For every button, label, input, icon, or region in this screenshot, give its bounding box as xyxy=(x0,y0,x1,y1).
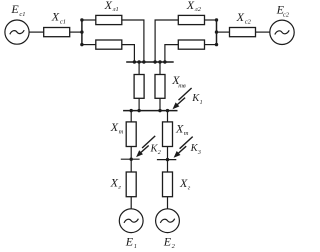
fault dot K2 xyxy=(130,158,133,161)
reactor Xt right xyxy=(163,122,173,147)
svg-text:X: X xyxy=(110,120,119,134)
svg-text:2: 2 xyxy=(158,150,161,156)
tilde of Ec2 xyxy=(275,30,289,34)
reactor Xtv right xyxy=(155,75,165,99)
tilde of G2 xyxy=(160,219,174,223)
wire Xtv left to lower bus xyxy=(138,98,140,110)
wire K2 node to Xg left xyxy=(130,159,132,172)
right bus xyxy=(216,19,218,45)
tilde of G1 xyxy=(124,219,138,223)
svg-text:с1: с1 xyxy=(19,11,25,18)
resistor Xc1 xyxy=(44,28,70,37)
svg-text:X: X xyxy=(236,10,245,24)
resistor Xl1 circuit 1 xyxy=(96,15,122,24)
resistor Xc2 xyxy=(230,28,256,37)
label Xt left xyxy=(110,120,124,136)
source Ec2 circle xyxy=(270,20,294,44)
fault arrow K1 xyxy=(173,88,192,109)
wire Ec1 to Xc1 xyxy=(29,31,44,33)
fault arrow K3 xyxy=(174,137,193,158)
fault node line K3 xyxy=(157,159,176,161)
svg-text:1: 1 xyxy=(200,100,203,106)
wire Xt right to fault K3 node xyxy=(167,147,169,160)
wire Xg right to generator 2 xyxy=(167,197,169,209)
svg-text:с1: с1 xyxy=(60,18,66,25)
source Ec1 circle xyxy=(5,20,29,44)
svg-text:тв: тв xyxy=(178,82,186,89)
svg-text:E: E xyxy=(125,234,134,248)
wire Xg left to generator 1 xyxy=(130,197,132,209)
svg-text:т: т xyxy=(119,129,124,136)
wire Xc1 to left bus xyxy=(70,31,82,33)
reactor Xg right xyxy=(163,172,173,197)
label Ec1 xyxy=(10,2,25,18)
resistor Xl1 circuit 2 xyxy=(96,40,122,49)
label Ec2 xyxy=(276,3,290,19)
generator G1 circle xyxy=(119,209,143,233)
svg-text:с2: с2 xyxy=(283,11,290,18)
wire line1 left to center xyxy=(122,20,144,62)
label K3 xyxy=(190,143,201,156)
wire left bus to line1 left resistor xyxy=(82,19,96,21)
svg-text:2: 2 xyxy=(172,243,176,250)
svg-text:3: 3 xyxy=(197,150,201,156)
svg-text:л1: л1 xyxy=(112,6,119,13)
reactor Xg left xyxy=(126,172,136,197)
svg-text:E: E xyxy=(163,234,172,248)
label Xg left xyxy=(110,176,122,192)
wire middle bus to transformer TV1 xyxy=(138,62,140,75)
tilde of Ec1 xyxy=(10,30,24,34)
label Xc2 xyxy=(236,10,252,26)
wire lower bus to Xt left xyxy=(130,111,132,122)
resistor Xl2 circuit 2 xyxy=(178,40,204,49)
svg-text:X: X xyxy=(179,176,188,190)
wire line1 right to center xyxy=(155,20,178,62)
wire line1 right resistor to right bus xyxy=(205,19,217,21)
left bus xyxy=(81,19,83,45)
svg-text:X: X xyxy=(104,0,113,12)
svg-text:г: г xyxy=(118,184,121,191)
svg-text:X: X xyxy=(186,0,195,12)
wire K3 node to Xg right xyxy=(167,160,169,172)
resistor Xl2 circuit 1 xyxy=(178,15,204,24)
svg-text:X: X xyxy=(175,122,184,136)
reactor Xt left xyxy=(126,122,136,147)
svg-text:г: г xyxy=(188,185,191,192)
fault node line K2 xyxy=(121,158,140,160)
wire Xtv right to lower bus xyxy=(159,98,161,110)
junction dots right bus xyxy=(215,18,218,21)
wire line2 right resistor to right bus xyxy=(205,44,217,46)
fault arrow K2 xyxy=(136,136,155,157)
fault dot K3 xyxy=(166,158,169,161)
label E1 xyxy=(125,234,137,250)
label Xt right xyxy=(175,122,189,138)
svg-text:т: т xyxy=(184,130,189,137)
wire Xt left to fault K2 node xyxy=(130,147,132,160)
svg-text:с2: с2 xyxy=(245,18,252,25)
label Xc1 xyxy=(51,10,66,26)
label K1 xyxy=(191,93,202,106)
junction dots middle bus xyxy=(133,60,136,63)
label Xg right xyxy=(179,176,191,192)
svg-text:л2: л2 xyxy=(194,6,202,13)
middle bus xyxy=(126,61,174,63)
reactor Xtv left xyxy=(134,75,144,99)
svg-text:X: X xyxy=(110,176,119,190)
label Xl1 xyxy=(104,0,119,13)
lower bus K1 xyxy=(123,110,177,112)
generator G2 circle xyxy=(156,209,180,233)
junction dots left bus xyxy=(80,18,83,21)
wire right bus to Xc2 xyxy=(217,31,230,33)
wire line2 right to center xyxy=(165,45,178,62)
svg-text:X: X xyxy=(51,10,60,24)
svg-text:E: E xyxy=(10,2,19,16)
label Xl2 xyxy=(186,0,202,13)
wire line2 left to center xyxy=(122,45,135,62)
wire Xc2 to Ec2 xyxy=(256,31,270,33)
label Xtv xyxy=(171,73,186,89)
svg-text:1: 1 xyxy=(134,243,137,250)
wire middle bus to transformer TV2 xyxy=(159,62,161,75)
label K2 xyxy=(150,143,161,156)
wire left bus to line2 left resistor xyxy=(82,44,96,46)
wire lower bus to Xt right xyxy=(167,111,169,122)
label E2 xyxy=(163,234,176,250)
junction dots lower bus xyxy=(130,109,133,112)
